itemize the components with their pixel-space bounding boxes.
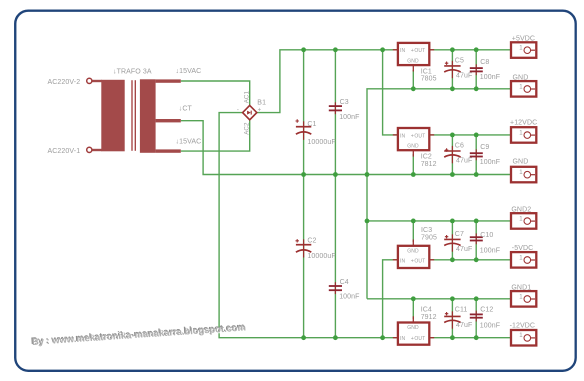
svg-text:100nF: 100nF [339,294,359,301]
voltage regulator IC2 7812 [393,128,434,157]
wire: C5 branch [451,50,453,89]
capacitor C3 [329,99,360,121]
capacitor C6 [444,143,472,165]
svg-text:47uF: 47uF [456,246,472,253]
wire: bridge plus to top positive rail [256,50,398,113]
svg-text:-12VDC: -12VDC [510,322,535,329]
svg-text:C4: C4 [340,279,349,286]
svg-text:1: 1 [519,46,523,52]
wire: C6 branch [451,135,453,175]
svg-text:OUT: OUT [414,336,425,342]
wire: C11 branch [451,299,453,338]
svg-text:100nF: 100nF [480,323,500,330]
svg-text:47uF: 47uF [456,322,472,329]
connector GND (row 4) [511,159,536,183]
svg-text:1: 1 [519,216,523,222]
watermark [32,321,247,347]
svg-text:C12: C12 [480,307,493,314]
svg-text:C2: C2 [307,238,316,245]
svg-text:GND: GND [513,74,529,81]
capacitor C7 [444,231,472,253]
svg-text:100nF: 100nF [339,114,359,121]
svg-text:C3: C3 [340,99,349,106]
svg-text:↓CT: ↓CT [179,106,193,113]
svg-text:1: 1 [519,84,523,90]
svg-text:10000uF: 10000uF [307,253,335,260]
svg-text:GND: GND [407,325,419,331]
wire: C9 branch [475,135,477,175]
wire: GND1 rail [367,298,511,300]
svg-text:C8: C8 [480,59,489,66]
svg-text:IN: IN [400,258,405,264]
transformer TR primary winding [92,80,125,152]
svg-text:AC1: AC1 [243,91,250,104]
capacitor C4 [329,279,360,301]
capacitor C10 [470,232,500,254]
svg-text:IN: IN [400,48,405,54]
transformer secondary winding [140,79,181,153]
wire: bridge minus to negative bottom rail [219,113,398,338]
voltage regulator IC1 7805 [393,43,434,72]
svg-text:AC220V-2: AC220V-2 [48,79,81,86]
connector -5VDC [511,245,536,268]
wire: 15VAC bottom arm to bridge AC2 [181,120,250,151]
svg-text:1: 1 [519,255,523,261]
svg-text:IC4: IC4 [421,307,432,314]
transformer pin AC220V-1 pad [87,147,92,152]
junction dots on GND2 rail [365,219,479,224]
wire: +5V ground rail [367,89,511,299]
svg-text:7912: 7912 [421,314,437,321]
bridge rectifier B1 [243,105,257,119]
wire: C12 branch [475,299,477,338]
svg-text:C9: C9 [480,144,489,151]
svg-text:C7: C7 [455,231,464,238]
connector GND1 [511,285,536,307]
connector -12VDC [510,322,537,345]
svg-text:47uF: 47uF [456,158,472,165]
junction dots on -5V output row [450,257,479,262]
svg-text:100nF: 100nF [480,159,500,166]
svg-text:OUT: OUT [414,258,425,264]
svg-text:C6: C6 [455,143,464,150]
wire: IC3 ground to GND2 rail [412,221,414,242]
wire: C8 branch [475,50,477,89]
connector +12VDC [510,120,537,143]
svg-text:GND2: GND2 [511,207,531,214]
capacitor C8 [470,59,500,81]
svg-text:↓15VAC: ↓15VAC [176,139,202,146]
junction dots on GND1 rail [411,296,479,301]
svg-text:AC2: AC2 [243,122,250,135]
svg-text:GND1: GND1 [511,285,531,292]
capacitor C11 [444,307,472,329]
svg-text:OUT: OUT [414,48,425,54]
wire: IC1 ground to GND rail [412,70,414,89]
svg-text:10000uF: 10000uF [307,139,335,146]
svg-text:C5: C5 [455,58,464,65]
wire: IC3 output to -5VDC connector [430,259,512,261]
wire: IC2 ground to central rail [412,154,414,175]
capacitor C2 [296,238,336,260]
wire: IC2 output to +12VDC connector [430,134,512,136]
svg-text:B1: B1 [257,100,266,107]
svg-text:↓TRAFO 3A: ↓TRAFO 3A [113,69,152,76]
svg-text:GND: GND [407,248,419,254]
wire: IC1 output to +5VDC connector [430,49,512,51]
svg-text:-5VDC: -5VDC [512,245,534,252]
svg-text:GND: GND [513,159,529,166]
connector GND2 [511,207,536,229]
voltage regulator IC4 7912 [393,316,434,344]
capacitor C9 [470,144,500,166]
svg-text:100nF: 100nF [480,74,500,81]
svg-text:↓15VAC: ↓15VAC [176,68,202,75]
wire: 15VAC top arm to bridge AC1 [181,81,250,105]
connector GND (row 2) [511,74,536,96]
svg-text:C11: C11 [455,307,468,314]
svg-text:100nF: 100nF [480,247,500,254]
svg-text:47uF: 47uF [456,73,472,80]
svg-text:+5VDC: +5VDC [512,36,535,43]
capacitor C1 [296,119,336,146]
svg-text:AC220V-1: AC220V-1 [48,148,81,155]
junction dots on central ground rail [301,172,478,177]
svg-text:IC3: IC3 [421,227,432,234]
svg-text:GND: GND [407,59,419,65]
svg-text:1: 1 [519,333,523,339]
svg-text:1: 1 [519,130,523,136]
svg-text:7805: 7805 [421,76,437,83]
wire: IC4 output to -12VDC connector [430,337,512,339]
wire: IC4 ground to GND1 rail [412,299,414,319]
svg-text:7812: 7812 [421,161,437,168]
svg-text:7905: 7905 [421,234,437,241]
svg-text:1: 1 [519,170,523,176]
capacitor C12 [470,307,500,330]
wire: GND2 rail [367,220,511,222]
junction dots on positive top rail [301,47,478,52]
wire: IC3 input feed from negative rail [383,260,398,338]
wire: C10 branch [475,221,477,260]
svg-text:C1: C1 [307,121,316,128]
wire: C1 C2 filter column [303,50,305,338]
svg-text:IN: IN [400,133,405,139]
connector +5VDC [511,36,536,58]
svg-text:IC2: IC2 [421,154,432,161]
svg-text:+12VDC: +12VDC [510,120,537,127]
wire: positive feed to IC2 input [383,50,398,135]
svg-text:+: + [258,108,262,114]
voltage regulator IC3 7905 [393,240,434,269]
transformer core [132,80,135,151]
capacitor C5 [444,58,472,80]
svg-text:IN: IN [400,336,405,342]
svg-text:OUT: OUT [414,133,425,139]
wire: CT to central ground rail [181,121,511,175]
wire: C3 C4 filter column [334,50,336,338]
junction dots on +5V ground rail [411,86,479,91]
junction dots on +12V output row [450,133,479,138]
svg-text:C10: C10 [480,232,493,239]
svg-text:-: - [237,107,239,113]
junction dots on negative bottom rail [301,335,478,340]
svg-text:GND: GND [407,144,419,150]
transformer pin AC220V-2 pad [87,78,92,83]
svg-text:1: 1 [519,294,523,300]
svg-text:IC1: IC1 [421,69,432,76]
wire: C7 branch [451,221,453,260]
